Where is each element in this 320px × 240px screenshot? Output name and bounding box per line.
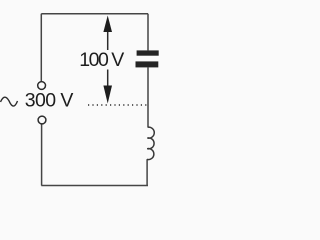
wire right lower (inductor to bottom) [146,159,148,185]
wire right middle (capacitor to inductor) [147,67,149,127]
AC tilde symbol [1,97,18,106]
dotted node line [88,104,147,106]
voltage arrow head bottom [103,86,112,104]
svg-text:100 V: 100 V [79,49,124,71]
capacitor C bottom plate [136,61,159,67]
wire right upper (top wire to capacitor) [147,14,149,51]
wire bottom [41,185,148,187]
inductor L [147,127,154,159]
voltage arrow head top [103,16,112,33]
svg-text:300 V: 300 V [25,90,74,112]
AC source terminal bottom circle [38,116,46,124]
capacitor C top plate [137,50,159,55]
wire top [41,13,148,15]
wire left upper [40,14,42,82]
AC source terminal top circle [38,82,46,90]
voltage arrow shaft lower [107,70,109,87]
wire left lower [41,124,43,186]
voltage arrow (double-headed) shaft upper [107,28,109,50]
